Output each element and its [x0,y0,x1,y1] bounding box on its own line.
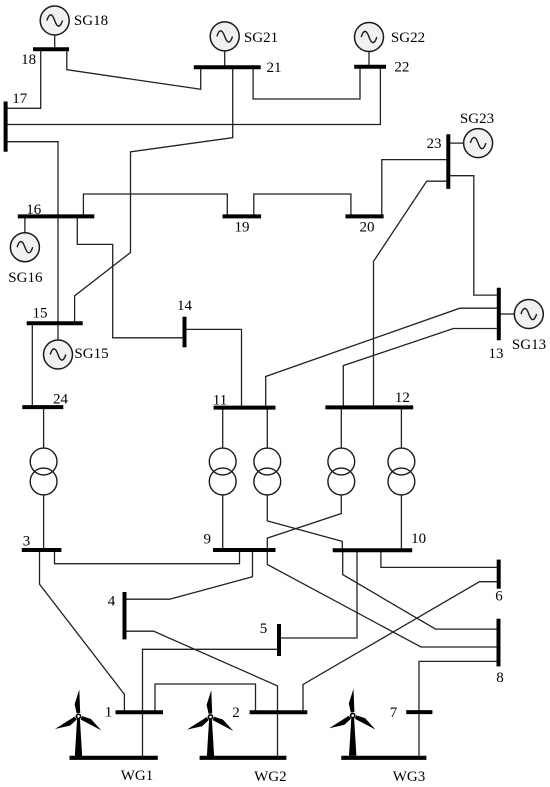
svg-text:19: 19 [235,220,250,236]
svg-text:SG18: SG18 [74,13,108,29]
svg-text:SG16: SG16 [8,270,43,286]
svg-text:WG1: WG1 [121,768,154,784]
svg-text:22: 22 [394,60,409,76]
svg-text:3: 3 [23,534,31,550]
svg-text:20: 20 [360,220,375,236]
svg-text:8: 8 [496,670,504,686]
svg-text:2: 2 [232,705,240,721]
svg-text:1: 1 [105,705,113,721]
svg-text:14: 14 [177,298,193,314]
svg-text:SG23: SG23 [460,111,494,127]
svg-text:WG2: WG2 [254,769,287,785]
svg-text:7: 7 [390,705,398,721]
svg-text:10: 10 [411,531,426,547]
svg-text:15: 15 [33,306,48,322]
svg-text:16: 16 [26,202,42,218]
svg-text:9: 9 [204,531,212,547]
svg-text:6: 6 [495,589,503,605]
svg-text:23: 23 [427,136,442,152]
svg-text:11: 11 [213,393,227,409]
svg-text:SG13: SG13 [512,337,546,353]
svg-text:SG22: SG22 [391,30,425,46]
svg-text:12: 12 [395,390,410,406]
svg-text:4: 4 [108,594,116,610]
svg-text:18: 18 [21,52,36,68]
svg-text:SG15: SG15 [74,346,108,362]
svg-text:5: 5 [260,621,268,637]
svg-text:WG3: WG3 [393,769,426,785]
svg-text:17: 17 [12,91,28,107]
svg-text:21: 21 [267,60,282,76]
svg-text:13: 13 [489,346,504,362]
svg-text:24: 24 [53,392,69,408]
svg-text:SG21: SG21 [244,30,278,46]
